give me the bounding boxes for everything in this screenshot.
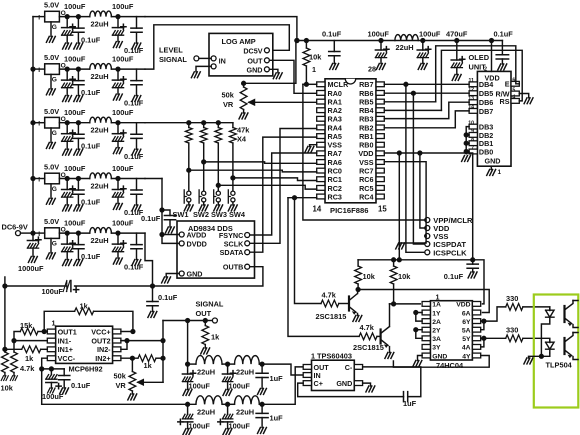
svg-text:4.7k: 4.7k [20, 364, 35, 373]
wire SW1 to ground [188, 202, 190, 205]
svg-text:4Y: 4Y [462, 353, 471, 360]
svg-text:5Y: 5Y [462, 336, 471, 343]
wire 0.1uF row 2 lead [77, 69, 79, 81]
resistor 4.7k Q1 [321, 300, 339, 307]
resistor 10k bias [2, 352, 9, 373]
svg-text:100uF: 100uF [64, 108, 86, 117]
ground RW RS [524, 98, 533, 104]
wire 0.1uF2 row 1 lead [136, 17, 138, 29]
wire DDS supply drop [162, 179, 179, 244]
wire REG1 input [33, 16, 45, 18]
wire 47k 1 top lead [188, 123, 190, 128]
wire 0.1uF row 4 lead [77, 179, 79, 191]
wire rail 0.1uF lead bottom [472, 260, 474, 264]
ground 100uF2 row 1 [113, 42, 122, 48]
svg-text:47k: 47k [237, 126, 250, 135]
pin 14 DB7 of OLED [469, 109, 477, 114]
wire SW line3 to RC1 [233, 178, 317, 181]
wire 6Y 5A bracket [481, 321, 484, 330]
junction 47k rail 3 [216, 121, 220, 125]
svg-text:4: 4 [512, 95, 515, 101]
ground 100uF B1 [183, 429, 192, 435]
wire row A feed riser [187, 321, 189, 365]
wire 330b to LED2 [523, 338, 550, 342]
pin 28 RB7 of PIC [376, 82, 384, 87]
pin 2 RA0 of PIC [317, 91, 325, 96]
wire row1 5V feed [145, 17, 297, 41]
wire 100uF row 2 gnd lead [66, 88, 68, 96]
junction row A feed [186, 319, 190, 323]
svg-text:SW2: SW2 [193, 210, 209, 219]
svg-text:SIGNAL: SIGNAL [196, 300, 224, 309]
svg-text:22uH: 22uH [236, 368, 254, 377]
IC U5 TPS60403 [312, 360, 355, 390]
wire RB5 to E [384, 101, 435, 103]
resistor 10k MCLR pullup [303, 48, 310, 66]
svg-text:RC3: RC3 [328, 192, 342, 201]
svg-text:0.1uF: 0.1uF [158, 293, 178, 302]
wire 0.1uF neg lead [63, 369, 65, 376]
switch SW4 actuator [228, 190, 230, 203]
junction 100uF A2 [226, 362, 230, 366]
capacitor 0.1uF row 3 first [73, 134, 84, 138]
capacitor 100uF row 1 second [112, 24, 126, 35]
wire 5Y to 330b [484, 337, 506, 339]
svg-text:22uH: 22uH [91, 236, 109, 245]
wire REG4 input [33, 178, 45, 180]
ground 100uF A2 [223, 390, 232, 396]
ground 100uF2 row 4 [113, 204, 122, 210]
pin 21 RB0 of PIC [376, 142, 384, 147]
svg-text:5.0V: 5.0V [44, 163, 59, 172]
resistor 4.7k gain [11, 352, 18, 373]
wire LOG AMP OUT to RA0 [270, 60, 317, 93]
pin GND of 74HC04 [422, 353, 430, 358]
junction DB0 tie [464, 150, 468, 154]
svg-text:OUTB: OUTB [223, 263, 243, 272]
wire row B right [259, 367, 304, 404]
svg-text:1uF: 1uF [270, 414, 284, 423]
svg-text:100uF: 100uF [112, 2, 134, 11]
svg-text:GND: GND [187, 270, 203, 279]
wire IN2- tie [121, 341, 127, 350]
regulator REG2 5.0V [45, 64, 60, 75]
ground SW3 [214, 205, 223, 211]
svg-text:1k: 1k [25, 354, 34, 363]
pin GND of TPS60403 [354, 381, 362, 386]
pin 4A of 74HC04 [472, 345, 480, 350]
ground 0.1uF row 4 [74, 205, 83, 211]
pin 6 E of OLED [511, 81, 519, 86]
wire 10k bottom lead [305, 66, 307, 84]
transistor Q1 2SC1815 [349, 290, 358, 316]
IC U2 AD9834 DDS [177, 221, 255, 278]
svg-text:I: I [38, 67, 40, 74]
pin 2A of 74HC04 [422, 319, 430, 324]
svg-text:VDD: VDD [456, 302, 470, 309]
wire 0.1uF2 row 3 lead [136, 123, 138, 135]
capacitor 100uF row 3 second [112, 130, 126, 141]
svg-text:E: E [505, 80, 510, 89]
svg-text:OUT2: OUT2 [91, 337, 110, 346]
svg-text:VR: VR [116, 381, 127, 390]
junction DDS 0.1uF [160, 208, 164, 212]
inductor 22uH B1 [196, 396, 222, 405]
svg-text:OUT1: OUT1 [58, 327, 77, 336]
wire 10k top lead [305, 41, 307, 49]
pin 2Y of 74HC04 [422, 327, 430, 332]
pin OUT of TPS60403 [303, 365, 311, 370]
svg-text:C-: C- [345, 363, 353, 372]
wire SW4 to ground [232, 202, 234, 205]
wire row4 to DDS supply [145, 178, 162, 180]
svg-text:22uH: 22uH [91, 72, 109, 81]
wire 100uF2 row 2 gnd lead [117, 88, 119, 94]
wire 100uF row 3 lead [66, 123, 68, 134]
junction 5Y [482, 336, 486, 340]
wire 74HC04 GND [418, 356, 423, 361]
pin 1 MCLR of PIC [317, 82, 325, 87]
wire bias 0.1uF lead [152, 286, 154, 302]
wire 0.1uF row 5 lead [77, 233, 79, 245]
svg-text:0.1uF: 0.1uF [141, 214, 161, 223]
switch SW2 top contact [202, 191, 206, 195]
pin IN of LOG AMP [211, 56, 216, 61]
svg-text:1: 1 [312, 65, 316, 74]
pin IN1+ of MCP6H92 [47, 347, 55, 352]
svg-text:G: G [52, 130, 57, 137]
pin 3A of 74HC04 [422, 336, 430, 341]
svg-text:13: 13 [468, 96, 474, 102]
wire 10k2 top [393, 260, 395, 266]
pin 5Y of 74HC04 [472, 336, 480, 341]
ground Q1 emitter [353, 316, 362, 322]
capacitor 100uF row 5 second [112, 241, 126, 252]
wire signal line [163, 320, 205, 322]
wire DB2 tie [466, 134, 469, 136]
wire row5 to bias node [145, 233, 153, 286]
svg-text:1: 1 [311, 352, 315, 361]
wire 100uF B1 lead [187, 404, 189, 414]
switch SW4 bottom contact [231, 198, 235, 202]
ground of REG1 [46, 36, 55, 42]
capacitor 0.1uF row 2 first [73, 81, 84, 85]
svg-text:10k: 10k [398, 272, 411, 281]
svg-text:50k: 50k [222, 91, 235, 100]
wire rail 0.1uF lead [333, 41, 335, 52]
wire VCC+ net [121, 331, 133, 333]
svg-text:2: 2 [484, 67, 487, 73]
wire RB6 to DB5 [384, 92, 469, 94]
terminal ICSPDAT ICSP [425, 242, 430, 247]
ground of REG3 [46, 143, 55, 149]
junction VCC- caps [40, 367, 44, 371]
svg-text:DB0: DB0 [479, 147, 493, 156]
wire DB3-DB0 tie [466, 127, 469, 154]
junction 100uF B1 [186, 402, 190, 406]
svg-text:12: 12 [468, 87, 474, 93]
wire REG3 input [33, 122, 45, 124]
pin 27 RB6 of PIC [376, 91, 384, 96]
wire VSS icsp stub [425, 235, 426, 237]
svg-text:5A: 5A [462, 328, 471, 335]
ground 100uF B2 [223, 429, 232, 435]
wire PIC VSS net [384, 162, 426, 243]
svg-text:9: 9 [471, 129, 474, 135]
svg-text:VR: VR [223, 100, 234, 109]
ground 100uF2 row 2 [113, 94, 122, 100]
pin 5 R/W of OLED [511, 91, 519, 96]
svg-text:4.7k: 4.7k [322, 291, 337, 300]
ground SW2 [199, 205, 208, 211]
inductor 22uH row 3 [90, 117, 112, 123]
junction 1uF A [260, 362, 264, 366]
junction IN1+ bias [3, 347, 7, 351]
wire 100uF A2 gnd lead [227, 381, 229, 389]
junction 100uF neg [50, 367, 54, 371]
capacitor 100uF A1 [182, 371, 195, 382]
junction REG5 out [65, 231, 69, 235]
wire 100uF row 1 gnd lead [66, 35, 68, 43]
wire VCC- net [42, 358, 48, 404]
wire 47k 3 bottom lead [217, 143, 219, 191]
ground 100uF row 2 [63, 96, 72, 102]
svg-text:470uF: 470uF [446, 30, 468, 39]
wire 47k 2 top lead [203, 123, 205, 128]
switch SW1 bottom contact [187, 198, 191, 202]
junction 100uF B2 [226, 402, 230, 406]
wire RB2 to DB7 [384, 111, 469, 128]
junction OUT1 [42, 330, 46, 334]
terminal LEVEL SIGNAL [194, 56, 199, 61]
junction SW1 line [187, 168, 191, 172]
wire 47k 4 top lead [232, 123, 234, 128]
transistor Q2 2SC1815 [381, 304, 390, 353]
junction DB1 tie [464, 141, 468, 145]
ground 100uF2 row 5 [113, 258, 122, 264]
svg-text:OUT: OUT [247, 56, 263, 65]
wire 6Y to 330a [484, 307, 506, 321]
svg-text:RB6: RB6 [359, 89, 373, 98]
ground 470uF [452, 75, 461, 81]
svg-text:3A: 3A [432, 336, 441, 343]
svg-text:I: I [38, 121, 40, 128]
wire 4.7k gnd [13, 373, 15, 376]
junction 0.1uF row 4 [77, 177, 81, 181]
wire 4Y return [393, 356, 489, 368]
regulator REG3 5.0V [45, 117, 60, 128]
junction REG1 out [65, 15, 69, 19]
junction 0.1uF row 1 [77, 15, 81, 19]
wire 100uF2 row 1 lead [117, 17, 119, 28]
wire DDS 0.1uF branch [162, 210, 170, 216]
wire Q1 base feed [295, 198, 322, 304]
wire Q2 base lead [377, 335, 381, 337]
svg-text:5.0V: 5.0V [44, 107, 59, 116]
IC U3 74HC04 [430, 301, 472, 360]
wire SDATA to RA5 [250, 137, 317, 252]
junction 0.1uF row 2 [77, 67, 81, 71]
svg-text:28: 28 [368, 65, 376, 74]
svg-text:SCLK: SCLK [224, 239, 244, 248]
wire 1k IN2+ series right [156, 357, 163, 359]
capacitor 100uF input row 5 [62, 241, 76, 252]
junction MCLR [305, 82, 309, 86]
wire bias divider [4, 286, 6, 352]
wire VCC- cap branch [42, 368, 64, 370]
junction RB6 icsp [412, 91, 416, 95]
svg-text:22uH: 22uH [91, 126, 109, 135]
svg-text:330: 330 [506, 325, 518, 334]
wire OLED GND lead [490, 166, 492, 169]
svg-text:MCP6H92: MCP6H92 [69, 365, 103, 374]
ground TLP LEDs [524, 358, 533, 364]
capacitor 0.1uF bottom rail [467, 264, 478, 268]
svg-text:GND: GND [336, 379, 352, 388]
wire signal riser [162, 321, 164, 383]
wire 100uF row 2 lead [66, 69, 68, 80]
ground 74HC04 [413, 361, 422, 367]
wire RW to ground [519, 94, 528, 98]
switch SW3 actuator [214, 190, 216, 203]
junction DB2 tie [464, 133, 468, 137]
svg-text:100uF: 100uF [189, 421, 211, 430]
svg-text:ICSPCLK: ICSPCLK [433, 248, 467, 257]
junction bus row 5 [31, 231, 35, 235]
inductor 22uH row 2 [90, 64, 112, 70]
junction rail 10k2 [392, 258, 396, 262]
wire MCLR net [303, 83, 317, 85]
wire RS net [441, 50, 522, 110]
pin SCLK of DDS [245, 241, 250, 246]
terminal ICSPCLK ICSP [425, 250, 430, 255]
svg-text:6A: 6A [462, 310, 471, 317]
svg-text:2Y: 2Y [432, 328, 441, 335]
svg-text:1k: 1k [80, 301, 89, 310]
optocoupler TLP504 outline [534, 295, 579, 408]
wire log amp input return [196, 66, 211, 71]
ground 100uF neg [48, 388, 56, 393]
svg-text:22uH: 22uH [91, 19, 109, 28]
ground rail 100uF [376, 64, 385, 70]
junction REG4 out [65, 177, 69, 181]
svg-text:VDD: VDD [358, 149, 373, 158]
junction rail cap [471, 258, 475, 262]
svg-text:RC1: RC1 [328, 175, 342, 184]
svg-text:100uF: 100uF [42, 287, 64, 296]
wire RB3 to DB6 [384, 102, 469, 118]
wire 100uF row 4 lead [66, 179, 68, 190]
svg-text:100uF: 100uF [189, 382, 211, 391]
wire VDD to bottom rail [398, 153, 400, 260]
capacitor 100uF input row 2 [62, 77, 76, 88]
pin VCC- of MCP6H92 [47, 356, 55, 361]
wire 1uF A gnd [261, 378, 263, 389]
wire 1k IN1+ right [41, 348, 48, 350]
svg-text:IN: IN [219, 57, 226, 66]
wire REG2 output [59, 68, 89, 70]
wire 47k 1 bottom lead [188, 143, 190, 191]
svg-text:2SC1815: 2SC1815 [316, 312, 347, 321]
block LOG AMP [209, 33, 273, 76]
pin AVDD of DDS [179, 232, 184, 237]
svg-text:6: 6 [512, 78, 515, 84]
svg-text:0.1uF: 0.1uF [124, 152, 144, 161]
wire 1A input [390, 303, 421, 305]
svg-text:7: 7 [471, 145, 474, 151]
svg-text:50k: 50k [114, 372, 127, 381]
wire VR1 top [244, 41, 296, 84]
ground VSS left pin [305, 147, 314, 153]
svg-text:0.1uF: 0.1uF [81, 198, 101, 207]
junction 0.1uF row 3 [77, 121, 81, 125]
svg-text:VCC-: VCC- [58, 354, 76, 363]
junction SW3 line [216, 183, 220, 187]
pin GND of DDS [179, 271, 184, 276]
wire 330a to LED1 [523, 307, 550, 311]
pin VCC+ of MCP6H92 [113, 329, 121, 334]
capacitor 100uF row 2 second [112, 77, 126, 88]
wire RB7 to DB4 [384, 83, 469, 85]
svg-text:AVDD: AVDD [187, 231, 207, 240]
wire row3 to 47k rail [145, 122, 233, 124]
svg-text:DB6: DB6 [479, 98, 493, 107]
wire 100uF row 5 lead [66, 233, 68, 244]
wire REG4 output [59, 178, 89, 180]
wire 100uF A1 gnd lead [187, 381, 189, 389]
wire REG1 output [59, 16, 89, 18]
ground 0.1uF row 5 [74, 260, 83, 266]
ground 100uF row 4 [63, 205, 72, 211]
svg-text:0.1uF: 0.1uF [444, 272, 464, 281]
junction bias 0.1uF [151, 284, 155, 288]
svg-text:1uF: 1uF [270, 374, 284, 383]
wire rail 100uF2 lead [422, 41, 424, 51]
wire level signal [199, 57, 211, 59]
ground OLED 0.1uF [498, 64, 507, 70]
ground of REG5 [46, 253, 55, 259]
wire 100uF2 row 3 gnd lead [117, 141, 119, 147]
resistor 47k 2 [200, 128, 207, 143]
capacitor 100uF rail first [375, 47, 389, 58]
capacitor 470uF [451, 57, 465, 68]
svg-text:DC5V: DC5V [243, 46, 262, 55]
junction RB7 icsp [404, 82, 408, 86]
wire 0.1uF row 5 gnd lead [77, 249, 79, 260]
pin 22 RB1 of PIC [376, 134, 384, 139]
wire row 4 after coil [111, 178, 145, 180]
svg-text:22uH: 22uH [197, 368, 215, 377]
svg-text:100uF: 100uF [64, 164, 86, 173]
wire REG5 input [33, 232, 45, 234]
wire bottom 5V rail [358, 260, 484, 304]
svg-text:SW1: SW1 [173, 210, 189, 219]
ground rail 100uF2 [418, 64, 427, 70]
wire 10k bias gnd [4, 373, 6, 376]
svg-text:0.1uF: 0.1uF [81, 36, 101, 45]
pin 9 RA7 of PIC [317, 151, 325, 156]
ground log amp input [191, 72, 200, 78]
wire 47k 2 bottom lead [203, 143, 205, 191]
junction rail 10k [305, 39, 309, 43]
ground OLED [487, 170, 496, 176]
pin 3Y of 74HC04 [422, 345, 430, 350]
wire 0.1uF2 row 4 lead [136, 179, 138, 191]
pin 8 DB1 of OLED [469, 141, 477, 146]
resistor 15k feedback [20, 328, 38, 335]
pin 24 RB3 of PIC [376, 116, 384, 121]
capacitor 0.1uF row 4 second [131, 190, 142, 194]
